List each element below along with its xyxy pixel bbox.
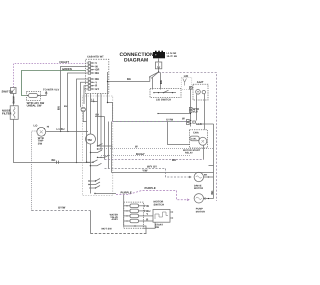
svg-text:MOT SW: MOT SW xyxy=(102,228,113,231)
svg-text:W: W xyxy=(146,204,149,208)
node BK xyxy=(95,114,105,118)
temp switch S2 xyxy=(37,127,46,136)
svg-text:BU: BU xyxy=(95,72,99,75)
wire purple to valve xyxy=(95,193,116,195)
cord strain relief xyxy=(155,58,161,72)
wire BK to timer xyxy=(108,81,150,83)
wire pump right xyxy=(204,198,214,200)
svg-text:W: W xyxy=(135,145,138,148)
svg-text:TO WTR VLV: TO WTR VLV xyxy=(43,88,59,91)
temp label xyxy=(38,137,44,145)
drive motor M2 xyxy=(194,172,203,181)
timer box T1 xyxy=(82,96,112,196)
svg-text:15-7F 3B: 15-7F 3B xyxy=(167,55,178,58)
wire agit drops xyxy=(196,94,198,120)
splice ticks xyxy=(57,161,59,164)
wire pin8 drop xyxy=(84,88,87,90)
lid plunger xyxy=(181,75,192,89)
svg-text:GY/W: GY/W xyxy=(58,206,66,209)
junction cluster pins xyxy=(182,116,202,125)
power plug P1 xyxy=(153,51,165,59)
pump label xyxy=(196,208,205,214)
filter label xyxy=(2,110,12,116)
power switch S1 xyxy=(11,88,17,94)
wire temp left drop xyxy=(32,131,37,211)
valve row R xyxy=(124,217,153,223)
pump motor M3 xyxy=(194,194,203,203)
svg-text:BK: BK xyxy=(210,190,214,194)
valve row Y xyxy=(124,212,153,218)
wire to water valve indicator xyxy=(40,92,47,96)
wire dashed bottom xyxy=(91,233,147,235)
svg-text:GY/W: GY/W xyxy=(166,119,174,122)
svg-text:W: W xyxy=(182,116,185,120)
svg-text:LO: LO xyxy=(34,125,38,128)
wire row Y/W xyxy=(112,172,214,174)
wtr vlv pins xyxy=(189,107,199,114)
valve row BU xyxy=(124,209,151,213)
wire row W dotted xyxy=(100,148,214,150)
lid switch box xyxy=(150,89,181,98)
motor label xyxy=(194,184,203,190)
wire right bus jog xyxy=(108,72,113,122)
wire violet L1 border xyxy=(14,64,86,88)
svg-text:PURPLE: PURPLE xyxy=(145,187,156,190)
svg-text:TM: TM xyxy=(87,138,92,142)
svg-text:BK: BK xyxy=(159,80,163,84)
svg-text:AGIT: AGIT xyxy=(197,81,204,84)
CHA label xyxy=(183,149,201,155)
valve common xyxy=(124,226,146,234)
wire CHA to row xyxy=(203,145,205,159)
svg-text:SWITCH: SWITCH xyxy=(2,89,13,93)
wire dashed into drive motor xyxy=(166,169,191,178)
svg-text:DIAGRAM: DIAGRAM xyxy=(124,57,148,63)
svg-text:LID SWITCH: LID SWITCH xyxy=(156,98,171,101)
wire GY/W harness xyxy=(32,210,91,212)
svg-text:BK: BK xyxy=(127,78,131,81)
wire lid horizontal xyxy=(158,113,191,115)
svg-text:FILTER: FILTER xyxy=(2,112,12,115)
svg-text:SW: SW xyxy=(38,142,43,145)
wire L2 dashed top xyxy=(159,73,217,202)
wire green ground xyxy=(22,71,86,96)
timer contacts upper xyxy=(86,144,113,167)
svg-text:GREEN: GREEN xyxy=(62,68,72,71)
svg-text:BU: BU xyxy=(57,106,61,110)
wire lid drop xyxy=(190,90,192,127)
svg-text:UNBAL SW: UNBAL SW xyxy=(27,105,42,108)
agitate solenoid box xyxy=(193,81,208,100)
valve label xyxy=(110,214,119,222)
wire left bus BK xyxy=(14,119,91,162)
svg-text:RELAY: RELAY xyxy=(185,152,193,155)
switch S4 contacts xyxy=(149,72,158,90)
svg-text:PURPLE: PURPLE xyxy=(121,192,132,195)
wire pin7 R drop xyxy=(84,86,87,104)
pressure label xyxy=(27,102,45,108)
wire row W/Y GY dashed xyxy=(105,168,166,170)
title CONNECTION DIAGRAM xyxy=(120,52,154,63)
svg-text:CAB-MTD WT: CAB-MTD WT xyxy=(87,55,104,58)
pin labels xyxy=(95,62,99,91)
wire BK lid feed xyxy=(160,73,162,90)
svg-text:MOTOR: MOTOR xyxy=(196,210,205,213)
svg-text:CHA: CHA xyxy=(193,132,199,135)
wire into CHA xyxy=(168,122,191,145)
wire drive motor right xyxy=(204,176,214,178)
plug label xyxy=(167,52,178,58)
svg-text:COIL: COIL xyxy=(191,138,197,141)
svg-text:GY: GY xyxy=(95,88,99,91)
svg-text:HI: HI xyxy=(47,126,50,129)
connector J1 cabinet interface xyxy=(86,59,109,93)
charge relay box CHA xyxy=(189,130,207,148)
wire pin6 Y drop xyxy=(81,82,87,107)
svg-text:W/Y GY: W/Y GY xyxy=(147,166,157,169)
noise filter FL1 xyxy=(10,106,18,120)
pressure switch PS1 xyxy=(26,91,40,100)
svg-text:SWITCH: SWITCH xyxy=(154,203,165,206)
timer contacts lower xyxy=(88,179,100,195)
svg-text:BU/GY: BU/GY xyxy=(136,153,145,156)
svg-text:SW: SW xyxy=(155,226,160,229)
BK bus right xyxy=(213,124,215,199)
svg-text:Y: Y xyxy=(146,212,148,216)
valve row W xyxy=(124,204,150,208)
timer motor M1 xyxy=(86,134,96,194)
wire pin2 W drop xyxy=(61,67,87,132)
wire valve to motor switch xyxy=(144,222,156,228)
wire BK/W xyxy=(13,94,15,106)
node under cord xyxy=(158,71,159,72)
water valve box xyxy=(124,195,144,229)
wire pin4 BU drop xyxy=(68,73,87,131)
wire pin5 BK drop xyxy=(77,79,87,163)
svg-text:VIOLET: VIOLET xyxy=(59,61,69,64)
svg-text:BK: BK xyxy=(204,173,208,176)
wire row BU/GY dotted xyxy=(101,155,190,157)
wire violet-green dashed mid xyxy=(113,121,190,123)
svg-text:BK: BK xyxy=(52,159,56,162)
svg-text:R: R xyxy=(146,217,148,221)
timer ladder verticals xyxy=(86,94,88,163)
motor switch box xyxy=(153,201,173,229)
wire drop to cabinet xyxy=(90,211,92,234)
svg-text:ASSY: ASSY xyxy=(112,218,119,221)
wire row to CHA xyxy=(105,159,204,161)
svg-text:BK/W: BK/W xyxy=(13,96,16,104)
svg-text:Y/W: Y/W xyxy=(142,169,148,172)
svg-text:VLV: VLV xyxy=(193,110,198,114)
indicator lamp DS1 xyxy=(81,107,87,121)
node L1 xyxy=(90,99,97,103)
svg-text:MOTOR: MOTOR xyxy=(194,187,203,190)
wire to BK bus xyxy=(196,123,214,125)
svg-text:BK: BK xyxy=(172,158,176,162)
svg-text:MOTOR START: MOTOR START xyxy=(183,149,201,152)
wire temp right L1 BU xyxy=(46,131,88,133)
